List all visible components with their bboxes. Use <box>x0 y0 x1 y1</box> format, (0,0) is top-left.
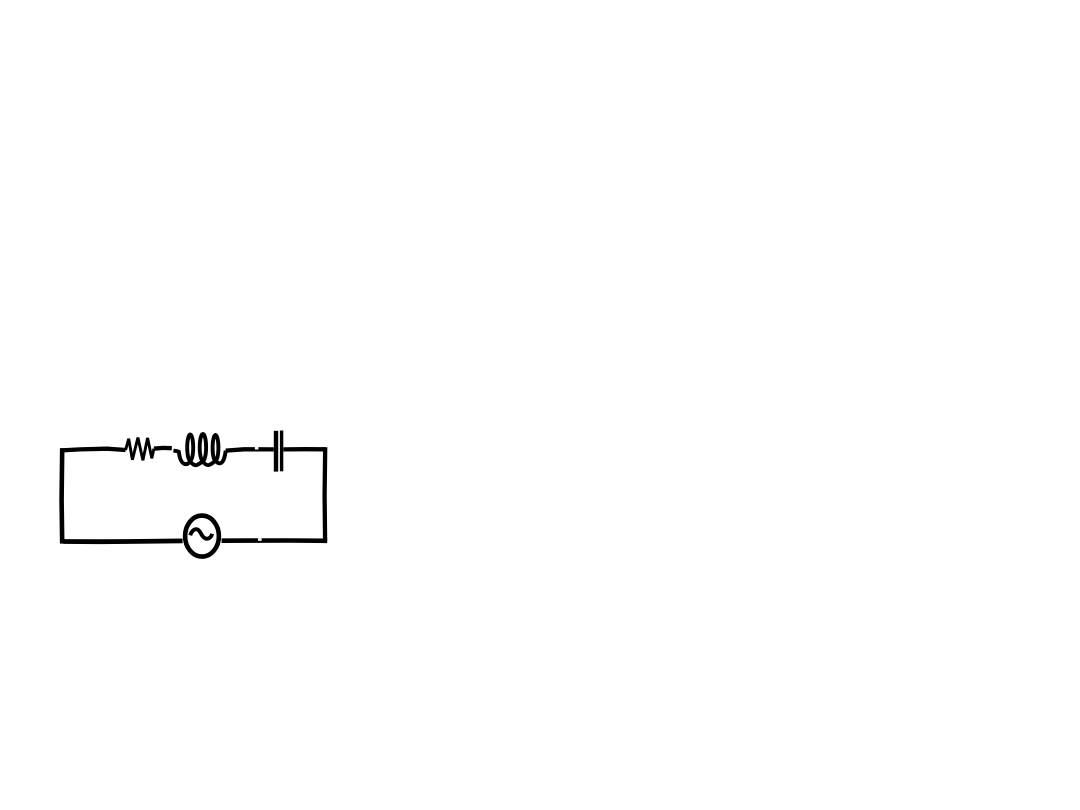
wire right vertical <box>322 447 327 541</box>
wire bottom-left horizontal <box>64 539 183 545</box>
ac source V1 <box>185 516 219 557</box>
wire inductor to capacitor <box>226 447 274 451</box>
wire bottom-right horizontal <box>222 538 328 541</box>
wire top-left horizontal segment <box>62 449 126 451</box>
capacitor C1 right plate <box>280 431 283 472</box>
wire capacitor to top-right corner <box>283 447 325 451</box>
capacitor C1 left plate <box>274 431 278 472</box>
inductor L1 <box>173 434 225 465</box>
resistor R1 <box>126 438 154 461</box>
wire left vertical <box>59 448 64 543</box>
wire resistor to inductor <box>154 446 172 451</box>
